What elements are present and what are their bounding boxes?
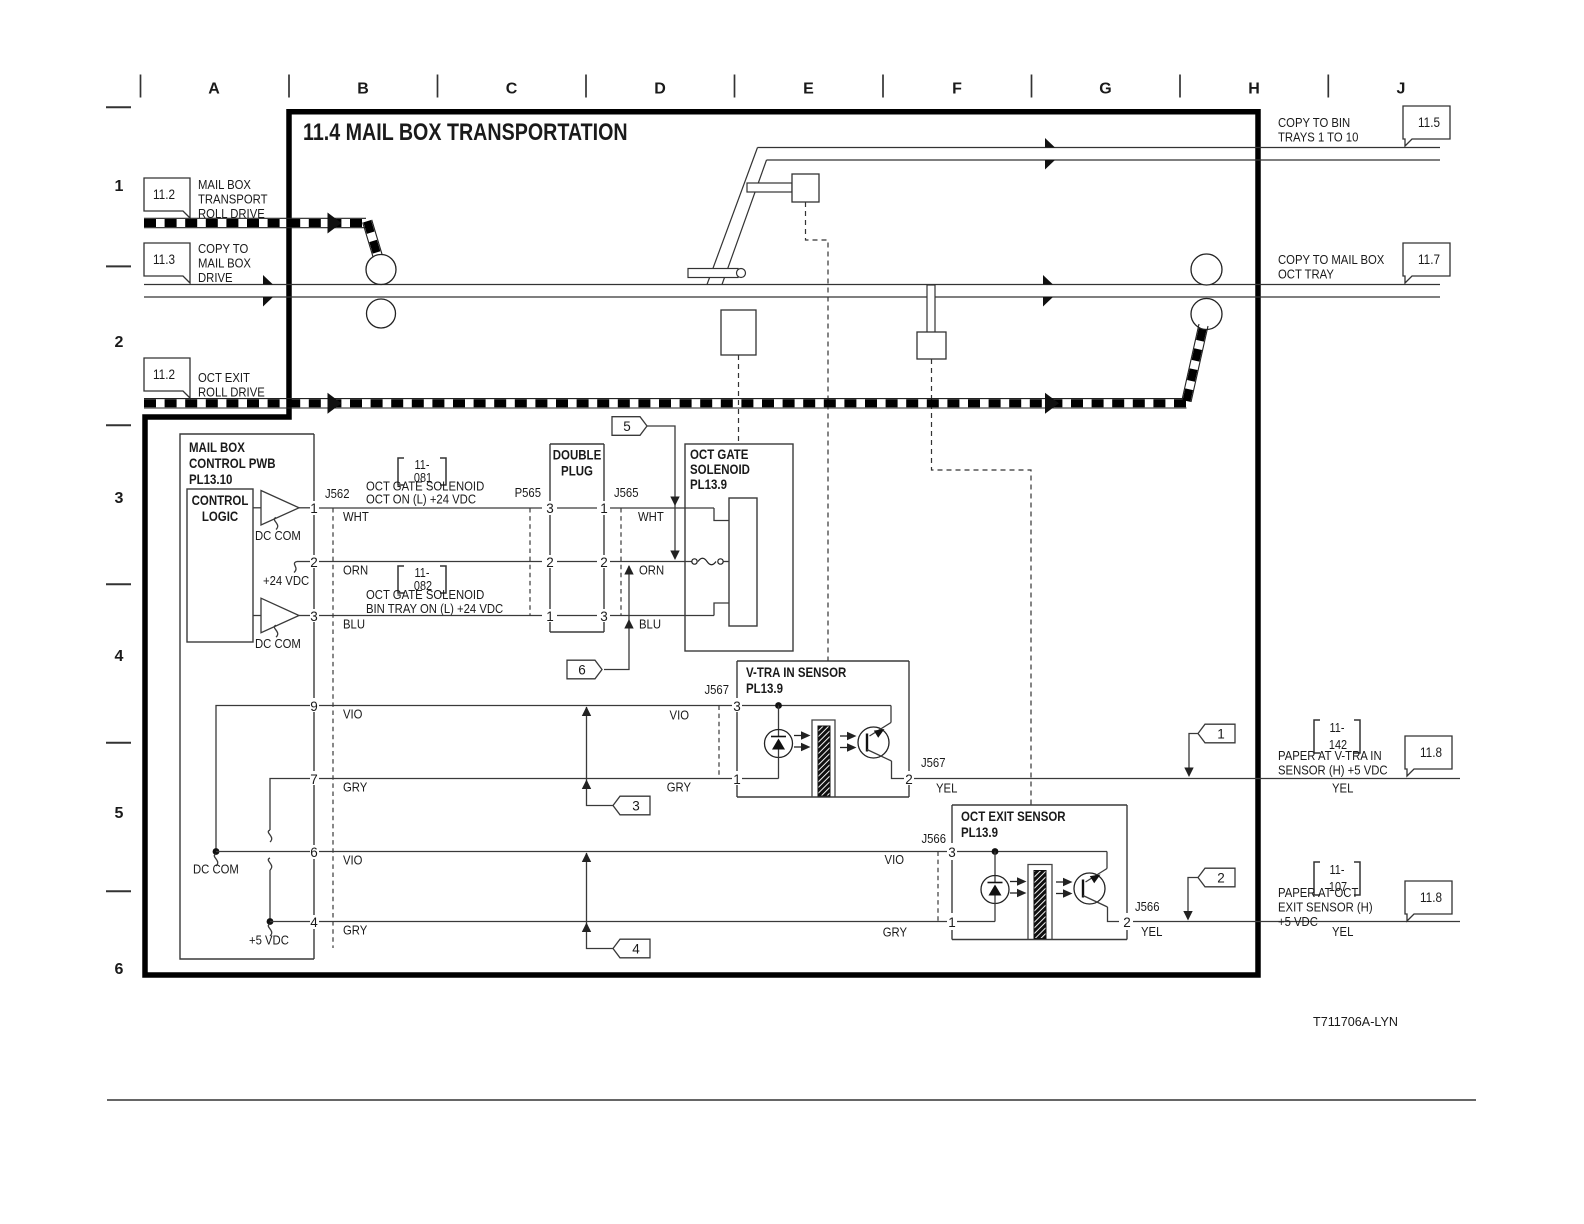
wire BLU plug to solenoid	[610, 615, 714, 617]
gate diagonal arm line 1	[707, 148, 758, 285]
svg-text:DRIVE: DRIVE	[198, 270, 233, 285]
sensor2 hatched media strip	[1034, 871, 1046, 939]
wire ORN pin2 to plug	[319, 561, 542, 563]
flag 4 leader with arrows to GRY and VIO wires	[587, 853, 614, 949]
svg-text:A: A	[208, 81, 220, 98]
svg-text:9: 9	[310, 699, 318, 714]
svg-text:VIO: VIO	[885, 852, 904, 867]
J567 connector boundary dashed line	[718, 706, 720, 779]
svg-text:DC COM: DC COM	[255, 636, 301, 651]
svg-text:2: 2	[905, 772, 913, 787]
wire YEL from J567 pin 2	[914, 778, 1460, 780]
svg-text:OCT GATE SOLENOID: OCT GATE SOLENOID	[366, 587, 484, 602]
svg-text:5: 5	[623, 419, 631, 434]
svg-text:F: F	[952, 81, 962, 98]
roller upper right	[1191, 254, 1222, 285]
sensor1 hatched media strip	[818, 726, 830, 796]
flag 2	[1198, 868, 1235, 887]
svg-text:H: H	[1248, 81, 1260, 98]
svg-text:MAIL BOX: MAIL BOX	[189, 439, 245, 455]
svg-text:GRY: GRY	[883, 925, 907, 940]
svg-text:DC COM: DC COM	[255, 528, 301, 543]
svg-text:OCT ON (L) +24 VDC: OCT ON (L) +24 VDC	[366, 492, 476, 507]
svg-text:J566: J566	[1135, 899, 1160, 914]
dashed link bin gate solenoid to V-TRA sensor	[806, 202, 829, 661]
svg-text:MAIL BOX: MAIL BOX	[198, 177, 251, 192]
svg-text:VIO: VIO	[343, 853, 362, 868]
sensor1 internal wire pin3	[742, 705, 891, 707]
flag 2 leader to YEL wire	[1188, 878, 1198, 915]
svg-text:+24 VDC: +24 VDC	[263, 573, 309, 588]
callout 11.7	[1403, 243, 1450, 283]
solenoid coil	[729, 498, 757, 626]
svg-text:YEL: YEL	[936, 781, 958, 796]
led 1	[765, 730, 793, 758]
wire VIO pin9 to J567	[319, 705, 732, 707]
paper path copy to mail box oct tray line 2	[144, 296, 1440, 298]
sensor1 slot channel	[812, 720, 835, 797]
svg-text:COPY TO BIN: COPY TO BIN	[1278, 115, 1350, 130]
svg-text:SOLENOID: SOLENOID	[690, 461, 750, 477]
double plug box	[550, 443, 604, 445]
svg-text:1: 1	[1217, 726, 1225, 741]
svg-text:LOGIC: LOGIC	[202, 508, 238, 524]
svg-text:PL13.9: PL13.9	[961, 824, 998, 840]
mail box transport roll drive belt	[144, 217, 366, 219]
svg-text:11.2: 11.2	[153, 187, 175, 202]
svg-text:OCT TRAY: OCT TRAY	[1278, 267, 1334, 282]
junction dot +5 vdc	[267, 918, 274, 925]
svg-text:COPY TO: COPY TO	[198, 241, 248, 256]
svg-text:3: 3	[115, 490, 124, 507]
roller lower left	[367, 299, 396, 328]
svg-text:YEL: YEL	[1332, 924, 1354, 939]
sensor2 internal wire pin3	[957, 851, 1107, 853]
svg-text:GRY: GRY	[343, 923, 367, 938]
oct gate actuator	[721, 310, 756, 355]
svg-text:EXIT SENSOR (H): EXIT SENSOR (H)	[1278, 900, 1373, 915]
flag 4	[613, 939, 650, 958]
svg-text:3: 3	[600, 609, 608, 624]
svg-text:11.5: 11.5	[1418, 115, 1440, 130]
J562 connector boundary dashed line	[332, 508, 334, 948]
gate pivot rod	[688, 269, 738, 278]
sensor1 emission arrows	[794, 735, 803, 737]
svg-text:J567: J567	[704, 682, 729, 697]
direction half-arrows on oct tray lines right	[1043, 275, 1053, 285]
main diagram border frame	[145, 112, 1258, 975]
driver amplifier 2	[253, 615, 261, 617]
svg-text:WHT: WHT	[343, 509, 369, 524]
flag 1	[1198, 724, 1235, 743]
svg-text:3: 3	[632, 798, 640, 813]
svg-text:11.3: 11.3	[153, 252, 175, 267]
roller upper left	[366, 255, 396, 285]
svg-text:ROLL DRIVE: ROLL DRIVE	[198, 385, 265, 400]
flag 5 leader with arrows to WHT and ORN wires	[647, 426, 675, 557]
callout 11.8 v-tra	[1405, 736, 1452, 776]
svg-text:4: 4	[632, 941, 640, 956]
oct gate solenoid box	[685, 444, 793, 651]
wire ORN plug to solenoid fuse	[610, 561, 692, 563]
+24 VDC feed at pin 2	[297, 561, 310, 563]
svg-text:11.8: 11.8	[1420, 745, 1442, 760]
stub from pin 7	[270, 779, 310, 831]
svg-text:11-: 11-	[415, 458, 430, 472]
P565 connector boundary dashed line	[529, 508, 531, 616]
svg-text:CONTROL PWB: CONTROL PWB	[189, 455, 275, 471]
svg-text:MAIL BOX: MAIL BOX	[198, 256, 251, 271]
svg-text:1: 1	[546, 609, 554, 624]
gate diagonal arm line 2	[722, 160, 767, 285]
svg-text:SENSOR (H) +5 VDC: SENSOR (H) +5 VDC	[1278, 763, 1388, 778]
v-tra in sensor box	[737, 660, 909, 662]
svg-text:+5 VDC: +5 VDC	[249, 933, 289, 948]
belt 2 diagonal segment to roller	[1191, 326, 1208, 402]
svg-text:DOUBLE: DOUBLE	[553, 446, 602, 462]
svg-text:GRY: GRY	[343, 780, 367, 795]
flag 1 leader to YEL wire	[1189, 734, 1198, 771]
svg-text:1: 1	[115, 178, 124, 195]
svg-text:11.4 MAIL BOX TRANSPORTATION: 11.4 MAIL BOX TRANSPORTATION	[303, 118, 628, 145]
sensor2 emission arrows	[1010, 881, 1019, 883]
sensor2 led feed	[994, 852, 996, 883]
svg-text:PAPER AT OCT: PAPER AT OCT	[1278, 885, 1359, 900]
callout 11.5	[1403, 106, 1450, 146]
footer rule	[107, 1099, 1476, 1101]
svg-text:P565: P565	[515, 485, 542, 500]
svg-text:3: 3	[310, 609, 318, 624]
svg-text:11.8: 11.8	[1420, 890, 1442, 905]
svg-text:DC COM: DC COM	[193, 862, 239, 877]
svg-text:E: E	[803, 81, 814, 98]
roller lower right	[1191, 299, 1222, 330]
svg-text:COPY TO MAIL BOX: COPY TO MAIL BOX	[1278, 252, 1384, 267]
svg-text:B: B	[357, 81, 369, 98]
wire BLU pin3 to plug	[319, 615, 542, 617]
column tick marks	[140, 75, 142, 98]
svg-text:PLUG: PLUG	[561, 462, 593, 478]
svg-text:OCT EXIT SENSOR: OCT EXIT SENSOR	[961, 808, 1066, 824]
svg-text:2: 2	[115, 334, 124, 351]
svg-text:CONTROL: CONTROL	[192, 492, 249, 508]
solenoid thermal fuse	[692, 559, 697, 564]
svg-text:BIN TRAY ON (L) +24 VDC: BIN TRAY ON (L) +24 VDC	[366, 601, 503, 616]
flag 6 leader with arrows to BLU and ORN wires	[604, 566, 629, 670]
svg-text:ORN: ORN	[639, 563, 664, 578]
flag 6	[567, 660, 602, 679]
svg-text:PL13.10: PL13.10	[189, 471, 232, 487]
sensor2 internal wire pin1	[957, 921, 995, 923]
svg-text:3: 3	[948, 845, 956, 860]
svg-text:11-: 11-	[1330, 863, 1345, 877]
wire pin6 to dc com dot	[216, 851, 310, 853]
svg-text:TRANSPORT: TRANSPORT	[198, 192, 268, 207]
sensor1 internal wire pin1	[742, 778, 779, 780]
wire VIO pin6 to J566	[319, 851, 947, 853]
junction dot sensor1	[775, 702, 782, 709]
paper path copy to bin trays line 2	[767, 159, 1441, 161]
svg-text:C: C	[506, 81, 518, 98]
svg-text:OCT EXIT: OCT EXIT	[198, 370, 250, 385]
wire GRY pin4 to J566	[319, 921, 947, 923]
bin gate solenoid plunger	[747, 183, 792, 192]
led 2	[981, 876, 1009, 904]
junction dot sensor2	[992, 848, 999, 855]
svg-text:+5 VDC: +5 VDC	[1278, 914, 1318, 929]
control logic box	[187, 489, 253, 642]
wire pin4 to +5 vdc dot	[270, 921, 310, 923]
belt 1 diagonal segment to roller	[372, 220, 383, 255]
svg-text:YEL: YEL	[1141, 924, 1163, 939]
svg-text:VIO: VIO	[343, 707, 362, 722]
row tick marks	[106, 106, 131, 108]
svg-text:VIO: VIO	[670, 708, 689, 723]
svg-text:V-TRA IN SENSOR: V-TRA IN SENSOR	[746, 664, 846, 680]
svg-text:5: 5	[115, 805, 124, 822]
sensor1 led feed	[778, 706, 780, 737]
paper path copy to bin trays line 1	[758, 147, 1441, 149]
phototransistor 2	[1074, 873, 1105, 904]
svg-text:GRY: GRY	[667, 780, 691, 795]
svg-text:11.7: 11.7	[1418, 252, 1440, 267]
bin gate solenoid body	[792, 174, 819, 202]
+5 vdc rail to pin 4	[268, 858, 271, 870]
wire GRY pin7 to J567	[319, 778, 732, 780]
svg-text:G: G	[1099, 81, 1111, 98]
svg-text:1: 1	[948, 915, 956, 930]
svg-text:2: 2	[1217, 870, 1225, 885]
callout 11.3 copy to mail box drive	[144, 243, 190, 283]
svg-text:1: 1	[310, 501, 318, 516]
dc com rail from pin 9	[216, 706, 310, 852]
paper path copy to mail box oct tray line 1	[144, 284, 1440, 286]
belt 1 direction arrow	[328, 213, 342, 234]
svg-text:11-: 11-	[1330, 721, 1345, 735]
svg-text:2: 2	[546, 555, 554, 570]
svg-text:T711706A-LYN: T711706A-LYN	[1313, 1014, 1398, 1029]
flag 3 leader with arrows to GRY and VIO wires	[587, 707, 614, 806]
svg-text:J566: J566	[921, 831, 946, 846]
svg-text:ORN: ORN	[343, 563, 368, 578]
mail box control pwb box	[180, 434, 314, 959]
svg-text:PL13.9: PL13.9	[690, 476, 727, 492]
dashed link oct gate actuator to oct gate solenoid	[738, 355, 740, 444]
svg-text:2: 2	[1123, 915, 1131, 930]
svg-text:6: 6	[578, 662, 586, 677]
direction half-arrows on oct tray lines left	[263, 275, 273, 285]
svg-text:1: 1	[733, 772, 741, 787]
svg-text:4: 4	[310, 915, 318, 930]
svg-text:ROLL DRIVE: ROLL DRIVE	[198, 206, 265, 221]
sensor2 slot channel	[1028, 865, 1052, 940]
svg-text:BLU: BLU	[343, 617, 365, 632]
belt 2 direction arrow left	[328, 393, 342, 414]
svg-text:WHT: WHT	[638, 509, 664, 524]
J565 connector boundary dashed line	[620, 508, 622, 616]
oct exit actuator stem	[927, 285, 935, 333]
svg-text:D: D	[654, 81, 666, 98]
svg-text:7: 7	[310, 772, 318, 787]
dashed link oct exit actuator to oct exit sensor	[932, 359, 1032, 805]
svg-text:11.2: 11.2	[153, 367, 175, 382]
svg-text:4: 4	[115, 648, 124, 665]
svg-text:PAPER AT V-TRA IN: PAPER AT V-TRA IN	[1278, 748, 1382, 763]
svg-text:BLU: BLU	[639, 617, 661, 632]
svg-text:11-: 11-	[415, 566, 430, 580]
svg-text:6: 6	[115, 961, 124, 978]
J566 connector boundary dashed line	[937, 852, 939, 922]
svg-text:OCT GATE: OCT GATE	[690, 446, 749, 462]
oct exit roll drive belt	[144, 398, 1187, 400]
flag 3	[613, 796, 650, 815]
oct exit sensor box	[952, 804, 1127, 806]
driver amplifier 1	[253, 507, 261, 509]
svg-text:2: 2	[310, 555, 318, 570]
svg-text:1: 1	[600, 501, 608, 516]
svg-text:6: 6	[310, 845, 318, 860]
direction half-arrows on bin tray lines	[1045, 138, 1055, 148]
wire WHT plug to solenoid	[610, 507, 714, 509]
svg-text:3: 3	[733, 699, 741, 714]
callout 11.2 oct exit roll drive	[144, 358, 190, 398]
svg-text:3: 3	[546, 501, 554, 516]
wire YEL from J566 pin 2	[1133, 921, 1460, 923]
svg-text:TRAYS 1 TO 10: TRAYS 1 TO 10	[1278, 130, 1359, 145]
svg-text:PL13.9: PL13.9	[746, 680, 783, 696]
svg-text:YEL: YEL	[1332, 781, 1354, 796]
svg-text:J: J	[1397, 81, 1406, 98]
callout 11.8 oct exit	[1405, 881, 1452, 921]
wire WHT pin1 to plug	[319, 507, 542, 509]
belt 2 direction arrow right	[1045, 393, 1059, 414]
svg-text:J567: J567	[921, 755, 946, 770]
flag 5	[612, 417, 647, 436]
plug internal wires	[557, 507, 597, 509]
svg-text:J562: J562	[325, 486, 350, 501]
phototransistor 1	[858, 727, 889, 758]
svg-text:J565: J565	[614, 485, 639, 500]
svg-text:2: 2	[600, 555, 608, 570]
junction dot dc com	[213, 848, 220, 855]
callout 11.2 mail box transport roll drive	[144, 178, 190, 218]
oct exit actuator body	[917, 332, 946, 359]
